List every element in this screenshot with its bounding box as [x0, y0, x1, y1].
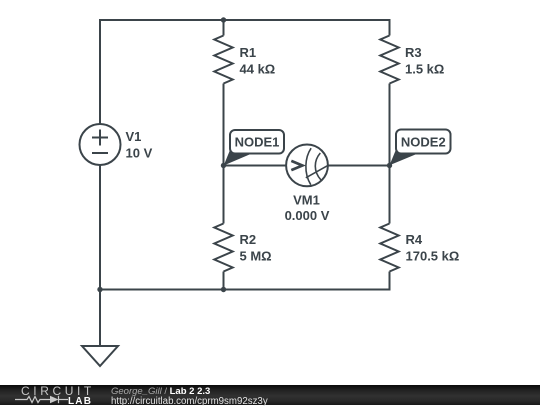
resistor R1 [214, 36, 232, 84]
wire node A to voltmeter [224, 165, 287, 167]
logo CircuitLab [21, 387, 95, 396]
voltage source V1 [80, 124, 121, 165]
svg-text:44 kΩ: 44 kΩ [240, 62, 276, 77]
ground [82, 346, 118, 366]
svg-text:NODE2: NODE2 [401, 135, 446, 150]
svg-text:R1: R1 [240, 45, 257, 60]
svg-text:10 V: 10 V [126, 146, 153, 161]
resistor R2 [214, 224, 232, 272]
wire R3 bottom lead to node B [389, 84, 391, 166]
junction dot bottom left [97, 287, 102, 292]
svg-text:R2: R2 [240, 232, 257, 247]
svg-text:5 MΩ: 5 MΩ [240, 249, 272, 264]
svg-text:170.5 kΩ: 170.5 kΩ [406, 249, 460, 264]
junction dot bottom middle [221, 287, 226, 292]
svg-text:R3: R3 [405, 45, 422, 60]
wire top horizontal with left drop [100, 20, 390, 124]
junction dot node A [221, 163, 226, 168]
svg-text:R4: R4 [406, 232, 423, 247]
wire node A to R2 [223, 166, 225, 224]
footer title text [111, 387, 210, 396]
node NODE2 callout [390, 130, 451, 166]
resistor R3 [380, 36, 398, 84]
svg-text:NODE1: NODE1 [235, 135, 280, 150]
footer bar [0, 385, 540, 405]
svg-text:VM1: VM1 [293, 193, 320, 208]
wire left vertical bottom (V1 to ground) [99, 165, 101, 346]
node NODE1 callout [224, 130, 284, 166]
wire R1 top lead [223, 20, 225, 36]
svg-text:1.5 kΩ: 1.5 kΩ [405, 62, 444, 77]
wire voltmeter to node B [328, 165, 390, 167]
wire R1 bottom lead to node A [223, 84, 225, 166]
wire node B to R4 [389, 166, 391, 224]
junction dot top [221, 17, 226, 22]
footer url text [111, 397, 268, 406]
voltmeter VM1 [286, 145, 328, 187]
wire bottom horizontal with R4 lead [100, 272, 390, 290]
svg-text:V1: V1 [126, 129, 142, 144]
wire R2 bottom lead [223, 272, 225, 290]
junction dot node B [387, 163, 392, 168]
svg-text:0.000 V: 0.000 V [285, 208, 330, 223]
logo squiggle [14, 394, 70, 405]
resistor R4 [380, 224, 398, 272]
